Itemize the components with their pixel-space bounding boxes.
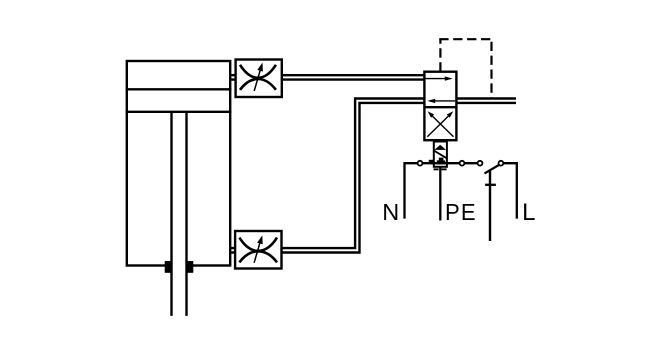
directional valve position divider — [424, 106, 456, 108]
directional valve bottom position crossed arrow 2 — [428, 111, 454, 137]
solenoid box — [434, 142, 447, 167]
flow control valve V2 throttle arcs — [239, 238, 277, 263]
cylinder body — [127, 61, 230, 266]
directional valve top position right arrow — [426, 76, 453, 80]
solenoid armature blob — [437, 158, 445, 165]
wire line B (bottom flow valve to directional valve, double line with two corners) — [229, 99, 424, 253]
switch actuator crossbar — [485, 184, 496, 186]
flow control valve V1 box (top) — [236, 60, 282, 98]
electrical wire N branch (down-left corner) — [405, 163, 479, 218]
flow control valve V2 box (bottom) — [235, 231, 281, 269]
wire output line (directional valve to right, double line) — [456, 99, 516, 103]
electrical wire PE branch — [439, 167, 441, 221]
svg-text:N: N — [382, 199, 399, 225]
terminal circle 2 — [460, 161, 465, 166]
solenoid base dash right — [442, 168, 447, 170]
svg-text:L: L — [522, 199, 535, 226]
directional valve U1 outer box — [424, 72, 456, 141]
solenoid connector pad — [429, 160, 434, 163]
svg-text:PE: PE — [445, 198, 477, 225]
rod end block left — [165, 261, 171, 273]
switch terminal circle left — [478, 161, 483, 166]
flow control valve V2 adjust arrow — [254, 235, 263, 262]
pilot line dashed vertical to output line — [490, 42, 492, 98]
electrical wire L branch (right corner down) — [503, 163, 517, 218]
terminal circle 1 — [418, 161, 423, 166]
solenoid top triangle — [434, 145, 446, 150]
pilot line dashed horizontal — [439, 38, 491, 40]
rod end block right — [187, 261, 193, 273]
wire line A (top flow valve to directional valve, double line) — [229, 75, 424, 79]
cylinder piston — [126, 89, 232, 112]
flow control valve V1 adjust arrow — [254, 63, 263, 91]
directional valve top position left arrow — [427, 99, 455, 103]
piston rod — [170, 112, 187, 316]
switch blade — [485, 165, 500, 174]
solenoid base dash left — [434, 168, 439, 170]
flow control valve V1 throttle arcs — [240, 65, 276, 90]
switch actuator link — [489, 171, 491, 241]
solenoid diagonal stroke — [434, 151, 447, 159]
pilot line dashed vertical from valve top — [439, 39, 441, 71]
switch terminal circle right — [499, 161, 504, 166]
directional valve bottom position crossed arrow 1 — [427, 111, 453, 137]
